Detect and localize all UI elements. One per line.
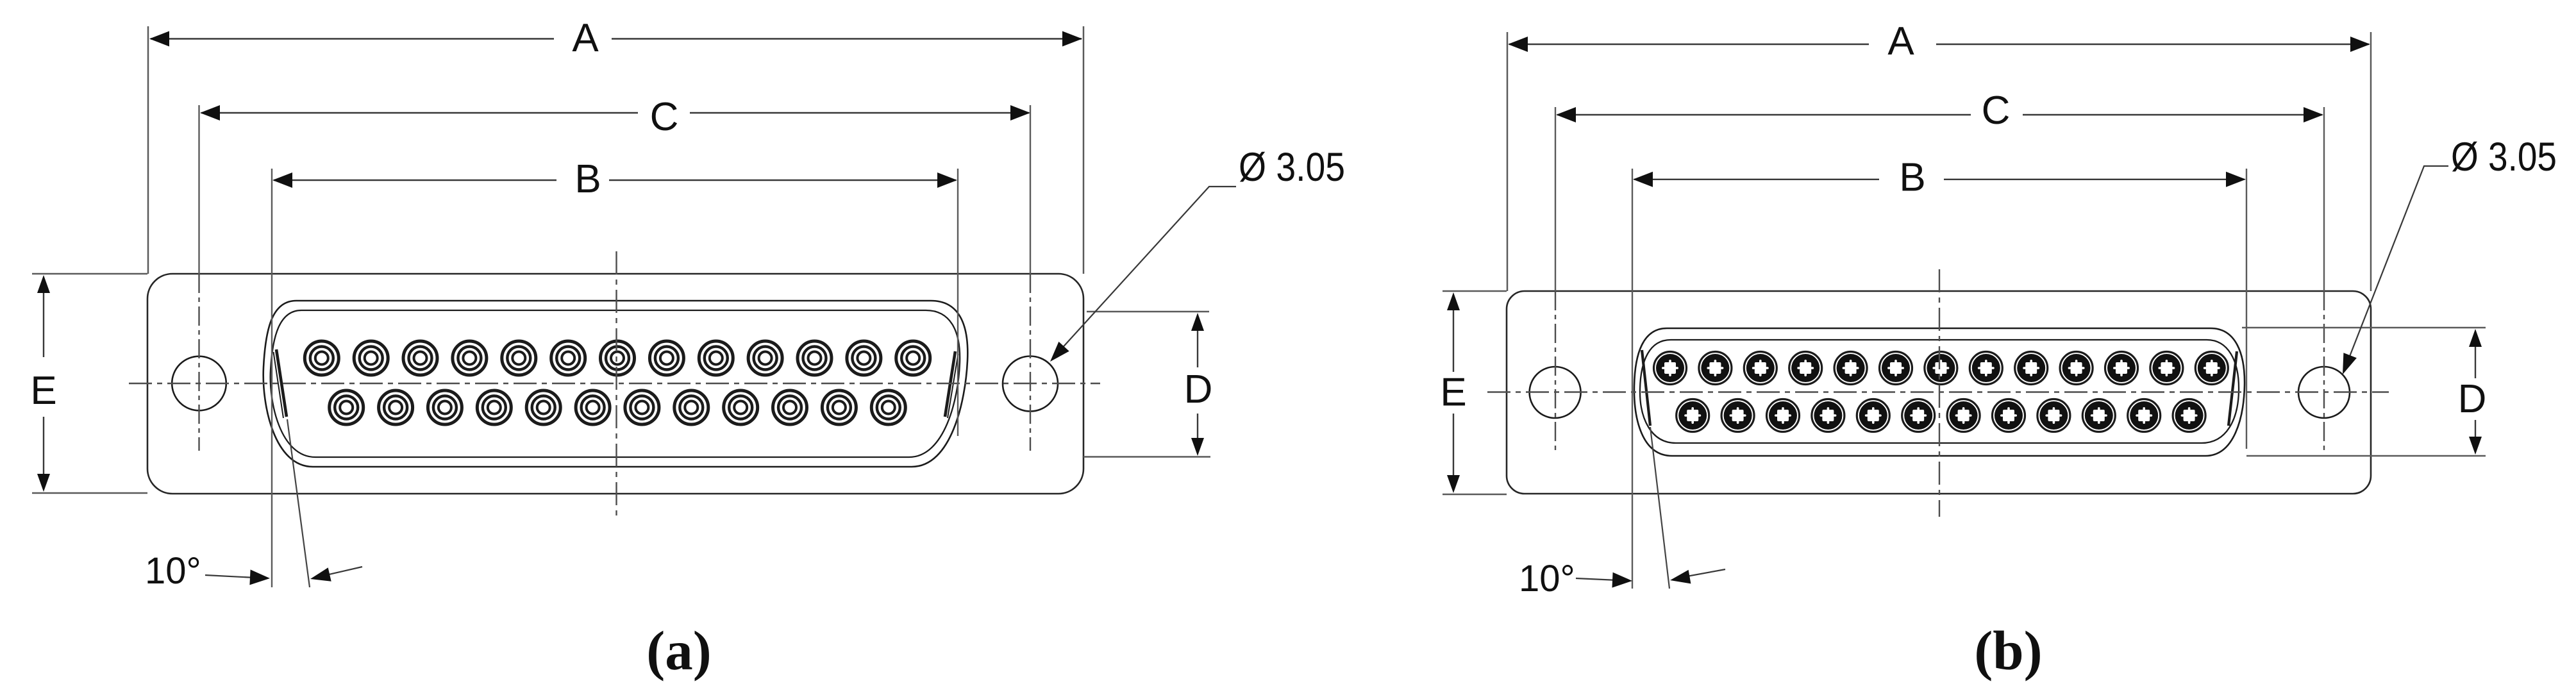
svg-text:B: B [1899,156,1925,200]
svg-text:A: A [572,16,599,60]
svg-text:E: E [1440,371,1466,415]
connector (b) flange outline [1507,291,2371,494]
angle 10 deg label (b) [1519,558,1575,599]
svg-text:10°: 10° [1519,558,1575,599]
dimension E (a) extension lines [32,274,147,493]
connector (a) left mounting hole [172,356,226,411]
connector (a) left insert side wall [274,349,287,418]
hole diameter label (a) [1239,145,1345,190]
connector (b) insert inner outline [1640,340,2239,443]
dimension A (b) label [1887,19,1914,63]
horizontal centerline (b) [1487,391,2389,392]
dimension A (a) extension lines [148,26,1083,274]
10 degree slanted extension line (b) [1650,427,1669,589]
10 degree slanted extension line (a) [287,419,310,587]
connector (a) socket row 1 (13 sockets) [305,341,930,375]
svg-text:A: A [1887,19,1914,63]
dimension B (a) line and arrows [272,172,957,188]
right hole centerline (b) [2323,107,2325,453]
dimension A (b) line and arrows [1508,37,2370,52]
sub-figure label (a) [646,619,711,682]
svg-text:C: C [650,95,679,139]
dimension D (a) arrows [1191,313,1204,456]
dimension E (a) arrows [37,275,50,492]
left hole centerline (a) [198,105,199,451]
connector (a) socket row 2 (12 sockets) [330,390,906,424]
dimension C (a) line and arrows [200,105,1030,121]
dimension E (b) label [1440,371,1466,415]
horizontal centerline (a) [129,383,1100,384]
connector (b) left insert side wall [1642,350,1650,426]
angle 10 deg arrows (b) [1576,569,1725,588]
connector (a) right mounting hole [1003,356,1058,412]
connector (b) left mounting hole [1530,367,1581,418]
dimension A (a) line and arrows [149,31,1082,47]
sub-figure label (b) [1974,619,2042,682]
left hole centerline (b) [1555,107,1556,453]
connector (a) insert inner outline [271,310,960,457]
vertical centerline (b) [1939,269,1940,517]
dimension D (b) label [2458,377,2487,421]
dimension A (a) label [572,16,599,60]
angle 10 deg label (a) [145,550,201,592]
hole diameter leader (a) [1050,187,1236,362]
connector (b) insert outer outline (rounded trapezoid) [1634,328,2245,456]
svg-text:E: E [30,369,56,413]
svg-text:C: C [1982,88,2011,133]
dimension E (a) label [30,369,56,413]
dimension B (b) label [1899,156,1925,200]
connector (b) pin row 1 (13 pins) [1654,352,2229,385]
dimension D (a) label [1184,367,1213,412]
dimension B (b) line and arrows [1633,172,2246,187]
svg-text:Ø 3.05: Ø 3.05 [2451,135,2557,180]
dimension B (a) extension lines [272,169,958,587]
connector (b) right insert side wall [2229,351,2237,426]
svg-text:(a): (a) [646,619,711,682]
dimension D (a) extension lines [1083,312,1210,457]
connector (b) right mounting hole [2298,367,2350,418]
dimension B (a) label [574,157,601,201]
svg-text:D: D [1184,367,1213,412]
dimension E (b) extension lines [1443,291,1507,494]
svg-text:Ø 3.05: Ø 3.05 [1239,145,1345,190]
svg-text:D: D [2458,377,2487,421]
connector (a) insert outer outline (rounded trapezoid) [263,301,968,467]
connector (b) pin row 2 (12 pins) [1677,399,2205,432]
dimension C (b) line and arrows [1556,107,2323,122]
svg-text:(b): (b) [1974,619,2042,682]
vertical centerline (a) [615,251,617,519]
connector (a) right insert side wall [945,351,958,418]
dimension B (b) extension lines [1632,169,2246,589]
dimension A (b) extension lines [1507,32,2371,291]
hole diameter leader (b) [2343,166,2448,374]
dimension C (b) label [1982,88,2011,133]
dimension D (b) arrows [2469,329,2482,455]
svg-text:10°: 10° [145,550,201,592]
dimension E (b) arrows [1447,292,1460,493]
angle 10 deg arrows (a) [205,567,362,585]
connector (a) flange outline [147,274,1083,494]
dimension D (b) extension lines [2242,328,2486,456]
dimension C (a) label [650,95,679,139]
right hole centerline (a) [1030,105,1031,451]
svg-text:B: B [574,157,601,201]
hole diameter label (b) [2451,135,2557,180]
